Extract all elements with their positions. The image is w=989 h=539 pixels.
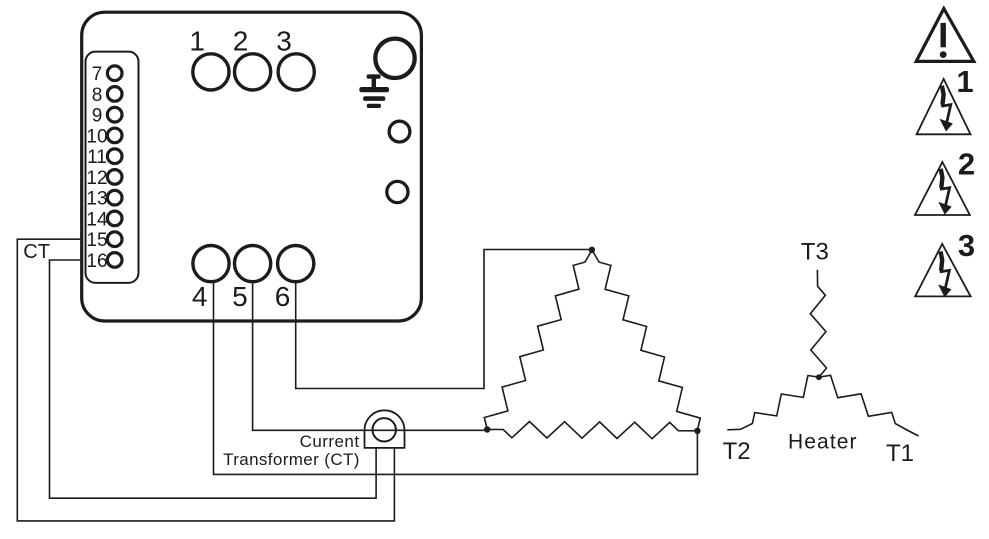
svg-text:4: 4 [192,281,208,312]
wye heater T2 winding [727,376,819,430]
svg-text:3: 3 [276,26,292,57]
terminal 6 [278,246,314,282]
svg-text:14: 14 [86,209,108,230]
svg-text:Current: Current [300,432,360,451]
svg-text:10: 10 [86,126,107,147]
delta heater left winding [484,250,592,429]
node delta right [694,428,700,434]
hazard triangle 2 (lightning) [915,162,970,215]
svg-text:8: 8 [92,85,103,106]
wye heater T3 winding [810,270,826,377]
terminal 2 [235,54,271,90]
wire terminal 5 through CT to delta left [253,283,488,431]
terminal 16 [107,253,122,268]
terminal 3 [278,54,314,90]
svg-text:12: 12 [86,168,107,189]
aux circle B [387,181,408,202]
svg-text:Transformer (CT): Transformer (CT) [223,450,360,469]
terminal 5 [235,246,271,282]
svg-text:Heater: Heater [788,430,858,453]
svg-text:15: 15 [86,230,107,251]
terminal 1 [193,54,229,90]
hazard triangle 1 (lightning) [917,79,971,134]
terminal 11 [107,149,122,164]
terminal 12 [107,170,122,185]
svg-text:2: 2 [958,146,975,181]
svg-text:T3: T3 [801,238,829,265]
svg-text:2: 2 [233,26,249,57]
terminal 8 [107,87,122,102]
svg-text:7: 7 [92,64,103,85]
terminal 10 [107,128,122,143]
delta heater bottom winding [487,422,697,439]
delta heater right winding [592,250,700,430]
wire terminal 6 to delta top [296,250,592,389]
svg-text:T1: T1 [886,440,914,467]
svg-text:1: 1 [189,26,205,57]
svg-text:CT: CT [23,241,50,263]
warning triangle (exclamation) [916,9,974,62]
svg-text:16: 16 [86,251,107,272]
svg-text:9: 9 [92,106,103,127]
terminal 9 [107,107,122,122]
ground terminal circle [375,39,414,78]
terminal 13 [107,190,122,205]
node delta left [484,426,490,432]
svg-text:3: 3 [958,228,975,263]
svg-text:13: 13 [86,189,107,210]
svg-text:5: 5 [232,281,248,312]
node delta top [589,247,595,253]
svg-text:6: 6 [275,281,291,312]
svg-text:1: 1 [956,64,973,99]
terminal 14 [107,211,122,226]
terminal 7 [107,66,122,81]
node wye center [816,374,822,380]
aux circle A [389,121,410,142]
wye heater T1 winding [819,375,919,436]
svg-text:11: 11 [87,147,107,168]
wire terminal 15 to CT secondary [17,239,394,521]
current transformer CT body [365,410,405,448]
terminal 15 [107,232,122,247]
wire terminal 16 to CT secondary [50,260,377,498]
current transformer CT core [373,418,396,441]
hazard triangle 3 (lightning) [915,244,970,297]
wire terminal 4 to delta right [214,283,698,475]
svg-text:T2: T2 [723,438,751,465]
terminal 4 [193,246,229,282]
terminal strip TB1 [86,52,139,283]
ground symbol [359,74,389,108]
controller box U1 [82,12,422,321]
